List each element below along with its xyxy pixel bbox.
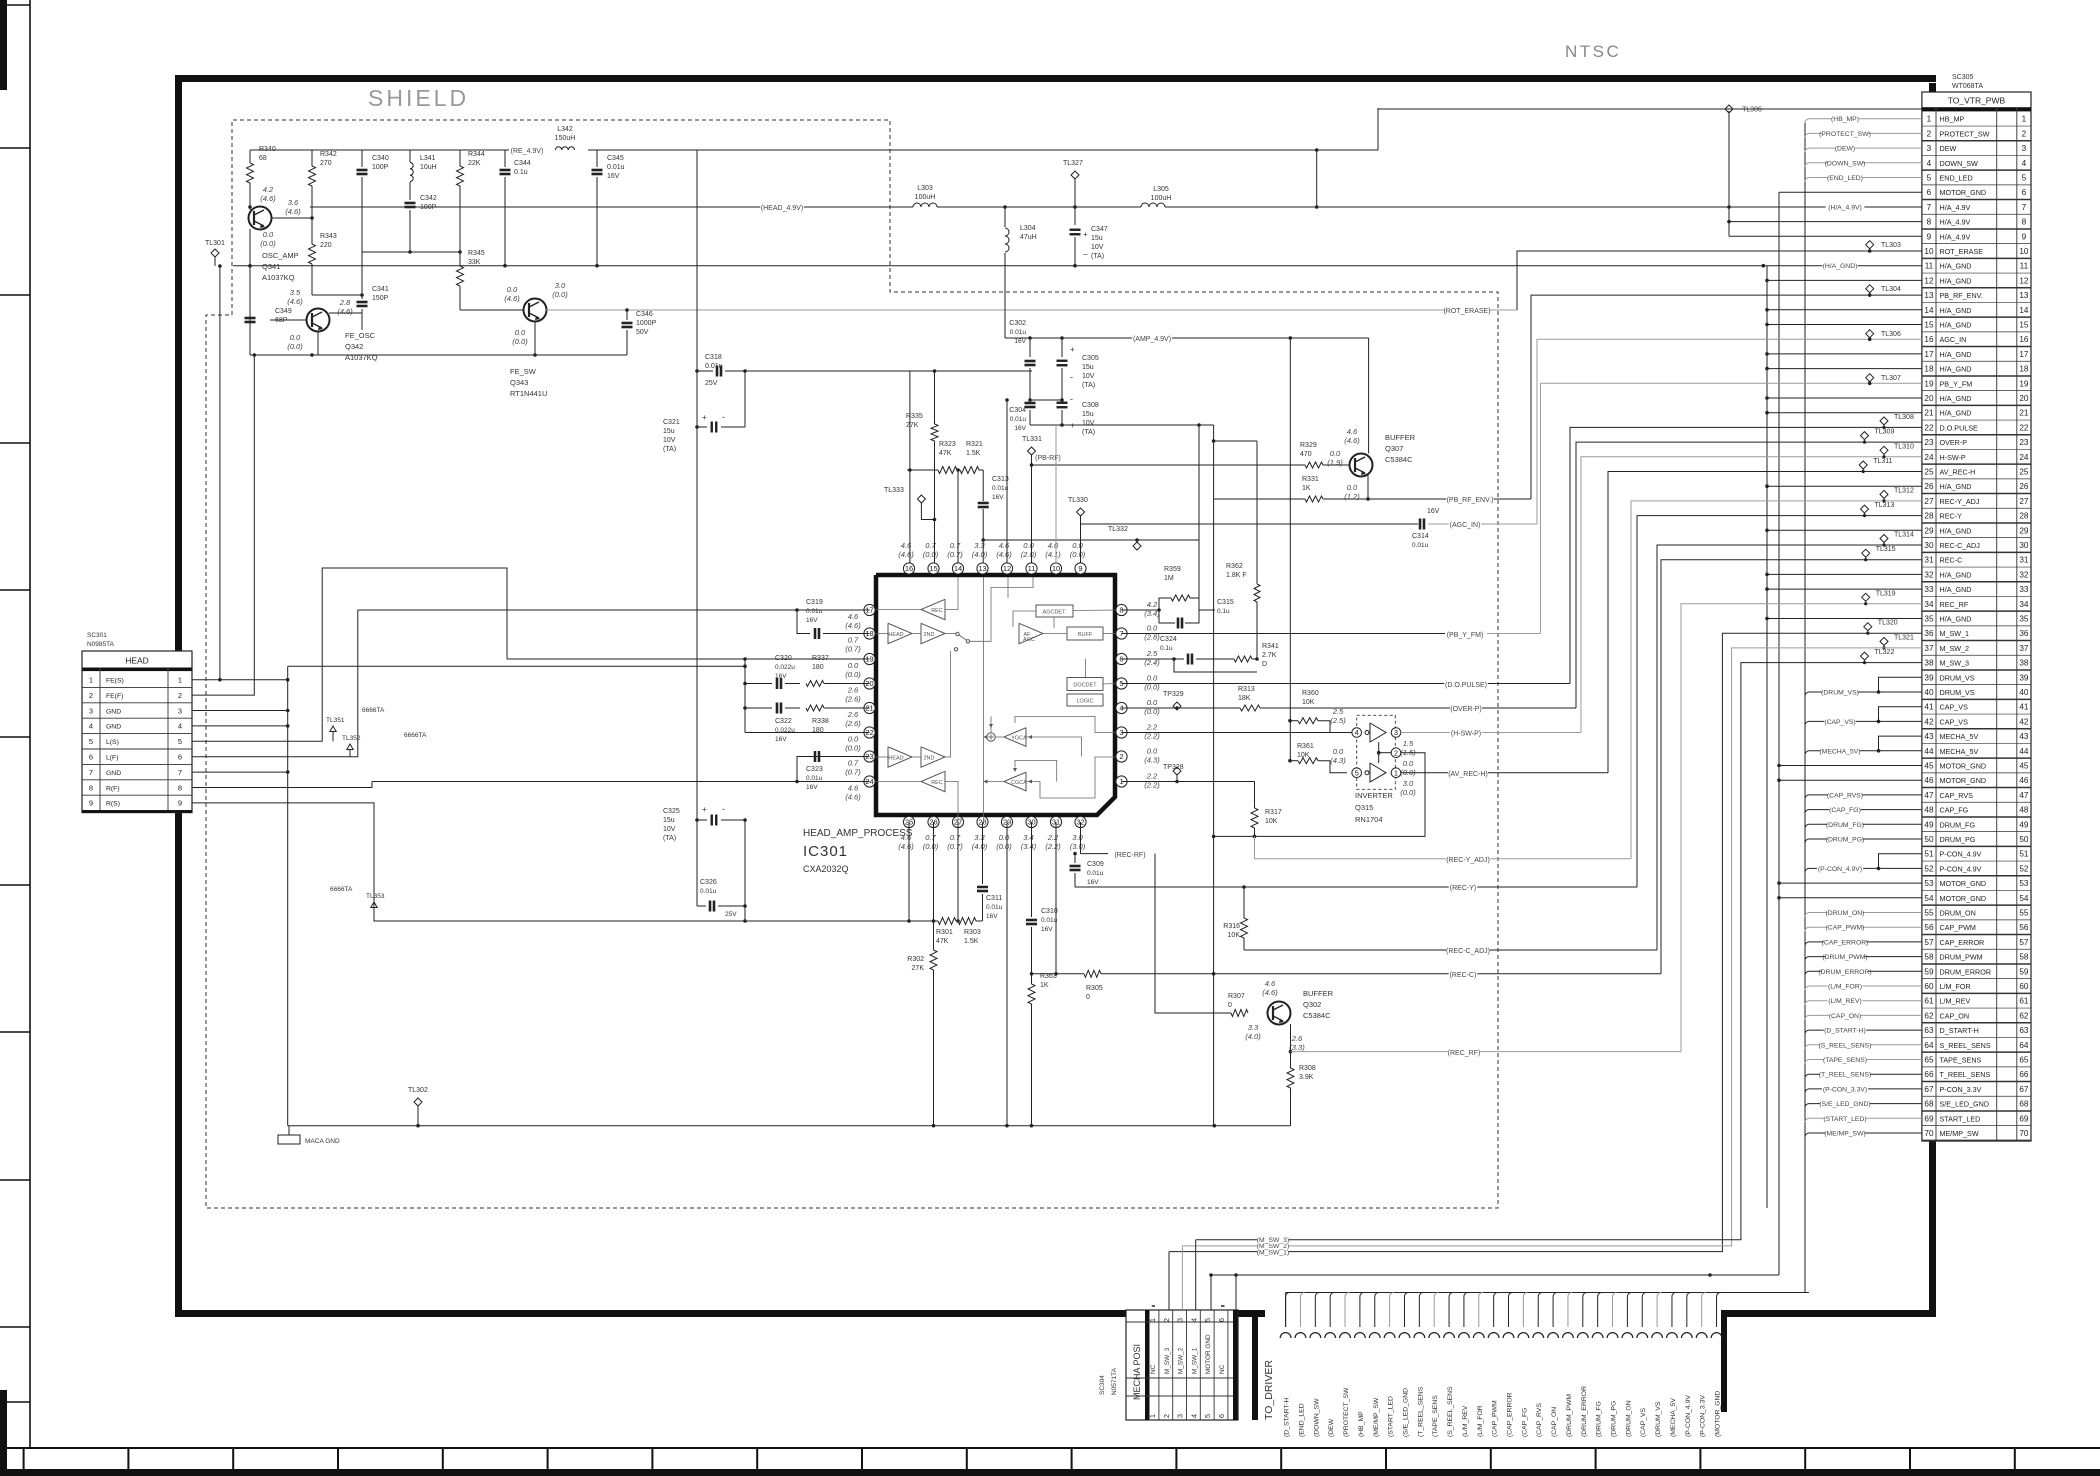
svg-text:M_SW_2: M_SW_2 <box>1940 644 1970 653</box>
svg-text:51: 51 <box>1924 850 1934 859</box>
svg-text:(MECHA_5V: (MECHA_5V <box>1670 1398 1677 1437</box>
svg-text:5: 5 <box>89 737 93 746</box>
svg-text:(REC_RF): (REC_RF) <box>1448 1050 1481 1057</box>
svg-text:10uH: 10uH <box>420 164 437 171</box>
svg-text:Q342: Q342 <box>345 342 363 351</box>
svg-text:(1.2): (1.2) <box>1344 492 1360 501</box>
IC301 pin 3 <box>1116 727 1127 738</box>
wire HEAD row7 GND <box>192 771 288 773</box>
capacitor C341 <box>361 295 363 299</box>
svg-text:0.01u: 0.01u <box>806 775 823 782</box>
wire R343 bottom to C341 <box>312 294 362 296</box>
wire M_SW_2 route <box>1182 648 1922 1246</box>
svg-text:R307: R307 <box>1228 993 1245 1000</box>
IC301 internal vertical pin13-28 <box>982 577 984 822</box>
svg-text:16V: 16V <box>1087 879 1099 886</box>
svg-text:TL309: TL309 <box>1875 429 1895 436</box>
svg-text:10: 10 <box>2019 247 2029 256</box>
wire (S_REEL_SENS) stub row 64 <box>1805 1045 1922 1049</box>
svg-text:TO_VTR_PWB: TO_VTR_PWB <box>1948 96 2006 106</box>
svg-text:4: 4 <box>178 722 182 731</box>
svg-text:(2.5): (2.5) <box>1330 716 1346 725</box>
svg-text:1: 1 <box>1148 1318 1157 1322</box>
svg-text:A1037KQ: A1037KQ <box>262 273 295 282</box>
wire Q302 emitter to REC_RF <box>1290 1024 1292 1052</box>
svg-text:C315: C315 <box>1217 599 1234 606</box>
MECHA POSI NC pin stubs <box>1152 1305 1155 1307</box>
svg-text:26: 26 <box>2019 482 2029 491</box>
wire C304 C308 bottom rail <box>1030 424 1214 426</box>
IC301 internal amp HEAD top <box>888 623 912 643</box>
svg-text:0.01u: 0.01u <box>1010 329 1027 336</box>
op-amp U1 IC301 body <box>876 575 1115 815</box>
wire HEAD row5 L(S) <box>192 568 507 741</box>
svg-text:66: 66 <box>2019 1070 2029 1079</box>
svg-text:67: 67 <box>2019 1085 2029 1094</box>
svg-text:2: 2 <box>1162 1414 1171 1418</box>
wire pin29 down <box>1006 822 1008 1126</box>
IC301 internal wire bottom channel to switch <box>945 651 951 757</box>
resistor R342 <box>311 150 313 166</box>
svg-text:(4.6): (4.6) <box>1262 988 1278 997</box>
svg-text:(AGC_IN): (AGC_IN) <box>1450 522 1481 529</box>
svg-text:-: - <box>1070 372 1073 382</box>
svg-text:1.8K F: 1.8K F <box>1226 572 1247 579</box>
resistor R343 <box>311 218 313 244</box>
svg-text:C308: C308 <box>1082 402 1099 409</box>
svg-text:17: 17 <box>2019 350 2029 359</box>
svg-text:REC-Y_ADJ: REC-Y_ADJ <box>1940 497 1980 506</box>
svg-text:R345: R345 <box>468 250 485 257</box>
svg-text:CXA2032Q: CXA2032Q <box>803 864 849 874</box>
svg-text:1000P: 1000P <box>636 320 657 327</box>
svg-text:68P: 68P <box>275 317 288 324</box>
wire AMP_4.9V rail <box>1005 337 1338 339</box>
svg-text:0.0: 0.0 <box>507 285 518 294</box>
IC301 pin 20 <box>864 678 875 689</box>
svg-text:20: 20 <box>2019 394 2029 403</box>
wire (END_LED) stub row 5 <box>1805 178 1922 182</box>
wire pin17 rail <box>358 609 870 611</box>
svg-text:0.01u: 0.01u <box>1041 917 1058 924</box>
wire HEAD row6 L(F) <box>192 610 358 757</box>
IC301 pin 24 <box>864 776 875 787</box>
svg-text:(0.0): (0.0) <box>1400 788 1416 797</box>
svg-text:28: 28 <box>1924 512 1934 521</box>
svg-text:TAPE_SENS: TAPE_SENS <box>1940 1056 1982 1065</box>
svg-text:RT1N441U: RT1N441U <box>510 389 547 398</box>
svg-text:25: 25 <box>1924 468 1934 477</box>
svg-text:(2.6): (2.6) <box>845 719 861 728</box>
TO_DRIVER pin arc MOTOR_GND <box>1711 1333 1722 1338</box>
svg-text:67: 67 <box>1924 1085 1934 1094</box>
IC301 pin 27 <box>952 816 963 827</box>
TO_DRIVER pin arc START_LED <box>1384 1333 1395 1338</box>
svg-text:32: 32 <box>2019 570 2029 579</box>
TO_DRIVER pin arc END_LED <box>1295 1333 1306 1338</box>
svg-text:HB_MP: HB_MP <box>1940 115 1965 124</box>
svg-text:14: 14 <box>2019 306 2029 315</box>
svg-text:M_SW_1: M_SW_1 <box>1940 629 1970 638</box>
svg-text:REC-C: REC-C <box>1940 556 1963 565</box>
wire GND bus x287.7 <box>287 666 289 1125</box>
svg-text:38: 38 <box>1924 659 1934 668</box>
svg-text:R305: R305 <box>1086 985 1103 992</box>
svg-text:2.2: 2.2 <box>1146 772 1158 781</box>
svg-text:62: 62 <box>2019 1011 2029 1020</box>
wire HEAD row3 GND <box>192 710 288 712</box>
inductor L304 <box>1004 207 1006 227</box>
svg-text:(4.6): (4.6) <box>898 550 914 559</box>
svg-text:TL313: TL313 <box>1875 502 1895 509</box>
svg-text:CAP_PWM: CAP_PWM <box>1940 923 1976 932</box>
svg-text:16V: 16V <box>1014 338 1026 345</box>
TO_DRIVER pin arc DEW <box>1325 1333 1336 1338</box>
svg-text:(DRUM_VS: (DRUM_VS <box>1655 1401 1662 1437</box>
wire riser REC-C <box>1661 560 1922 974</box>
bottom ruler line <box>0 1447 2100 1449</box>
svg-text:100uH: 100uH <box>1151 195 1172 202</box>
IC301 pin 4 <box>1116 702 1127 713</box>
svg-text:41: 41 <box>1924 703 1934 712</box>
svg-text:5: 5 <box>1927 174 1932 183</box>
wire (DRUM_VS) fork rows 39/40 <box>1805 692 1922 696</box>
svg-text:19: 19 <box>2019 379 2029 388</box>
svg-text:CAP_FG: CAP_FG <box>1940 806 1969 815</box>
IC301 pin 32 <box>1075 816 1086 827</box>
inverter Q315 RN1704 <box>1357 715 1396 789</box>
svg-text:(CAP_VS): (CAP_VS) <box>1824 719 1855 726</box>
svg-text:4.2: 4.2 <box>263 185 274 194</box>
IC301 pin 2 <box>1116 751 1127 762</box>
svg-text:HEAD: HEAD <box>888 632 903 638</box>
svg-text:1K: 1K <box>1302 485 1311 492</box>
capacitor C345 <box>596 150 598 167</box>
svg-text:57: 57 <box>2019 938 2029 947</box>
svg-text:49: 49 <box>2019 820 2029 829</box>
wire (CAP_VS) fork rows 41/42 <box>1805 721 1922 725</box>
wire (D_START-H) stub row 63 <box>1805 1030 1922 1034</box>
svg-text:(DRUM_PG): (DRUM_PG) <box>1826 837 1865 844</box>
IC301 internal AF AGC to BUFF <box>1043 633 1067 635</box>
svg-text:(REC-Y): (REC-Y) <box>1450 885 1476 892</box>
svg-text:(4.6): (4.6) <box>996 550 1012 559</box>
svg-text:56: 56 <box>1924 923 1934 932</box>
svg-text:470: 470 <box>1300 451 1312 458</box>
svg-text:44: 44 <box>2019 747 2029 756</box>
wire H/A_GND bus <box>1766 266 1768 1208</box>
svg-text:0.01u: 0.01u <box>1087 870 1104 877</box>
svg-text:(TA): (TA) <box>1091 253 1104 260</box>
resistor R323 <box>938 467 957 474</box>
svg-text:(TA): (TA) <box>1082 382 1095 389</box>
wire pin31 down <box>1055 822 1057 974</box>
svg-text:H/A_GND: H/A_GND <box>1940 585 1972 594</box>
resistor R305 <box>1084 970 1101 977</box>
IC301 pin 29 <box>1001 816 1012 827</box>
wire (P-CON_3.3V) stub row 67 <box>1805 1089 1922 1093</box>
svg-text:FE(S): FE(S) <box>106 678 124 685</box>
wire (DEW) stub row 3 <box>1805 148 1922 152</box>
capacitor C304 <box>1025 402 1036 405</box>
capacitor C322 + resistor R338 to pin21 <box>744 659 746 708</box>
svg-text:D.O.PULSE: D.O.PULSE <box>1940 423 1979 432</box>
svg-text:70: 70 <box>2019 1129 2029 1138</box>
svg-text:40: 40 <box>1924 688 1934 697</box>
svg-text:48: 48 <box>2019 806 2029 815</box>
svg-text:14: 14 <box>954 564 962 573</box>
svg-text:21: 21 <box>1924 409 1934 418</box>
wire (CAP_FG) stub row 48 <box>1805 810 1922 814</box>
TO_DRIVER pin arc CAP_ON <box>1548 1333 1559 1338</box>
IC301 pin 13 <box>977 563 988 574</box>
svg-text:TL303: TL303 <box>1881 242 1901 249</box>
wire riser REC_RF <box>1681 604 1922 1052</box>
svg-text:(HEAD_4.9V): (HEAD_4.9V) <box>761 205 803 212</box>
svg-text:(AMP_4.9V): (AMP_4.9V) <box>1133 336 1171 343</box>
svg-text:(DRUM_VS): (DRUM_VS) <box>1821 690 1859 697</box>
wire HEAD row9 R(S) <box>192 803 745 921</box>
svg-text:DRUM_FG: DRUM_FG <box>1940 820 1976 829</box>
svg-text:(CAP_ERROR: (CAP_ERROR <box>1507 1392 1514 1437</box>
svg-text:2: 2 <box>178 691 182 700</box>
wire riser OVER-P <box>1576 442 1922 708</box>
wire bus x1290 <box>1289 338 1291 761</box>
svg-text:0.0: 0.0 <box>1147 674 1158 683</box>
svg-text:R321: R321 <box>966 441 983 448</box>
svg-text:1.5K: 1.5K <box>966 450 981 457</box>
wire (T_REEL_SENS) stub row 66 <box>1805 1074 1922 1078</box>
svg-text:C309: C309 <box>1087 861 1104 868</box>
svg-text:(DRUM_PG: (DRUM_PG <box>1611 1401 1618 1437</box>
svg-text:8: 8 <box>178 783 182 792</box>
svg-text:9: 9 <box>2022 232 2027 241</box>
wire pin4 OVER-P row <box>1122 707 1241 709</box>
svg-text:R344: R344 <box>468 151 485 158</box>
svg-text:(4.0): (4.0) <box>972 842 988 851</box>
IC301 internal YGCA input <box>1026 737 1082 757</box>
svg-text:REC: REC <box>931 608 943 614</box>
svg-text:(TA): (TA) <box>663 835 676 842</box>
svg-text:DRUM_PWM: DRUM_PWM <box>1940 953 1983 962</box>
transistor Q302 BUFFER <box>1268 1002 1291 1025</box>
svg-text:R362: R362 <box>1226 563 1243 570</box>
svg-text:3.6: 3.6 <box>288 198 299 207</box>
svg-text:27: 27 <box>2019 497 2029 506</box>
capacitor C346 <box>626 310 628 320</box>
svg-text:C313: C313 <box>992 476 1009 483</box>
svg-text:(4.6): (4.6) <box>287 297 303 306</box>
svg-text:58: 58 <box>2019 953 2029 962</box>
wire (START_LED) stub row 69 <box>1805 1118 1922 1122</box>
svg-text:42: 42 <box>1924 717 1934 726</box>
svg-text:8: 8 <box>1927 218 1932 227</box>
svg-text:(0.0): (0.0) <box>552 290 568 299</box>
svg-text:65: 65 <box>2019 1056 2029 1065</box>
svg-text:TL311: TL311 <box>1873 458 1892 465</box>
IC301 pin 14 <box>952 563 963 574</box>
wire (H/A_GND) row 11 rail <box>233 265 1922 267</box>
svg-text:42: 42 <box>2019 717 2029 726</box>
svg-text:DOCDET: DOCDET <box>1073 683 1097 689</box>
svg-text:MOTOR_GND: MOTOR_GND <box>1940 879 1987 888</box>
wire (DRUM_PG) stub row 50 <box>1805 839 1922 843</box>
svg-text:54: 54 <box>1924 894 1934 903</box>
svg-text:3: 3 <box>1927 144 1932 153</box>
wire vertical x1213.6 <box>1213 425 1215 1126</box>
svg-text:10K: 10K <box>1228 932 1241 939</box>
svg-text:(DRUM_ON: (DRUM_ON <box>1625 1400 1632 1437</box>
svg-text:31: 31 <box>1924 556 1934 565</box>
TO_DRIVER pin arc CAP_FG <box>1518 1333 1529 1338</box>
svg-text:R313: R313 <box>1238 686 1255 693</box>
wire riser AV_REC-H <box>1608 472 1922 773</box>
svg-text:FE(F): FE(F) <box>106 693 123 700</box>
svg-text:4: 4 <box>1355 728 1359 737</box>
wire riser AGC_IN <box>1537 339 1922 524</box>
svg-text:69: 69 <box>1924 1114 1934 1123</box>
svg-text:(2.2): (2.2) <box>1045 842 1061 851</box>
IC301 internal YGCA feedback to pin3 <box>990 716 992 732</box>
svg-text:37: 37 <box>2019 644 2029 653</box>
svg-text:4: 4 <box>1189 1318 1198 1322</box>
svg-text:54: 54 <box>2019 894 2029 903</box>
svg-text:36: 36 <box>2019 629 2029 638</box>
svg-text:HEAD_AMP_PROCESS: HEAD_AMP_PROCESS <box>803 828 913 839</box>
svg-text:TL306: TL306 <box>1881 331 1901 338</box>
svg-text:2.7K: 2.7K <box>1262 652 1277 659</box>
svg-text:16V: 16V <box>1427 508 1440 515</box>
IC301 internal box AGCDET <box>1036 605 1073 617</box>
svg-text:(H-SW-P): (H-SW-P) <box>1451 731 1481 738</box>
svg-text:ROT_ERASE: ROT_ERASE <box>1940 247 1984 256</box>
svg-text:(END_LED: (END_LED <box>1298 1403 1305 1437</box>
TO_DRIVER pin arc DRUM_FG <box>1592 1333 1603 1338</box>
svg-text:WT068TA: WT068TA <box>1952 83 1983 90</box>
TO_DRIVER pin arc TAPE_SENS <box>1429 1333 1440 1338</box>
svg-text:−: − <box>1083 250 1088 259</box>
svg-text:H/A_GND: H/A_GND <box>1940 482 1972 491</box>
IC301 pin 28 <box>977 816 988 827</box>
wire vertical x1199 <box>1198 425 1200 598</box>
wire C324 bypass <box>1174 659 1257 672</box>
svg-text:24: 24 <box>2019 453 2029 462</box>
svg-text:0.0: 0.0 <box>1147 624 1158 633</box>
wire riser H-SW-P <box>1581 457 1922 733</box>
svg-text:53: 53 <box>1924 879 1934 888</box>
svg-text:6: 6 <box>178 753 182 762</box>
resistor R363 <box>1031 974 1033 984</box>
svg-text:L305: L305 <box>1153 186 1169 193</box>
svg-text:S/E_LED_GND: S/E_LED_GND <box>1940 1100 1990 1109</box>
svg-text:37: 37 <box>1924 644 1934 653</box>
TO_DRIVER pin arc CAP_PWM <box>1488 1333 1499 1338</box>
svg-text:44: 44 <box>1924 747 1934 756</box>
svg-text:C345: C345 <box>607 155 624 162</box>
svg-text:(T_REEL_SENS: (T_REEL_SENS <box>1417 1386 1424 1437</box>
svg-text:MOTOR_GND: MOTOR_GND <box>1940 188 1987 197</box>
svg-text:0.0: 0.0 <box>1023 541 1034 550</box>
svg-text:H/A_4.9V: H/A_4.9V <box>1940 203 1971 212</box>
svg-text:16: 16 <box>905 564 913 573</box>
svg-text:10V: 10V <box>1091 244 1104 251</box>
svg-text:C311: C311 <box>986 895 1002 902</box>
svg-text:R341: R341 <box>1262 643 1279 650</box>
svg-text:4.6: 4.6 <box>901 833 912 842</box>
wire Q343 emitter down <box>534 321 536 355</box>
resistor R321 <box>957 469 960 471</box>
svg-text:C5384C: C5384C <box>1303 1011 1331 1020</box>
svg-text:(REC-RF): (REC-RF) <box>1114 852 1145 859</box>
svg-text:16V: 16V <box>806 617 818 624</box>
svg-text:4.6: 4.6 <box>999 541 1010 550</box>
svg-text:MOTOR_GND: MOTOR_GND <box>1940 894 1987 903</box>
svg-text:Q302: Q302 <box>1303 1000 1321 1009</box>
svg-text:AGC_IN: AGC_IN <box>1940 335 1967 344</box>
svg-text:4.6: 4.6 <box>1265 979 1276 988</box>
svg-text:C318: C318 <box>705 354 722 361</box>
resistor R340 <box>249 150 251 163</box>
svg-text:36: 36 <box>1924 629 1934 638</box>
svg-text:62: 62 <box>1924 1011 1934 1020</box>
wire inverter output loop <box>1214 753 1425 837</box>
svg-text:0.1u: 0.1u <box>1217 608 1230 615</box>
svg-text:64: 64 <box>1924 1041 1934 1050</box>
svg-text:47K: 47K <box>936 938 949 945</box>
svg-text:70: 70 <box>1924 1129 1934 1138</box>
wire (ME/MP_SW) stub row 70 <box>1805 1133 1922 1137</box>
capacitor C349 <box>249 307 251 315</box>
svg-text:33: 33 <box>1924 585 1934 594</box>
svg-text:NC: NC <box>1219 1364 1226 1374</box>
svg-text:1K: 1K <box>1040 982 1049 989</box>
svg-text:C305: C305 <box>1082 355 1099 362</box>
svg-text:(0.0): (0.0) <box>996 842 1012 851</box>
inductor L305 <box>1141 206 1165 209</box>
wire TO_DRIVER bus <box>1285 1293 1287 1328</box>
svg-text:TL310: TL310 <box>1894 443 1914 450</box>
svg-text:A1037KQ: A1037KQ <box>345 353 378 362</box>
svg-text:(ME/MP_SW): (ME/MP_SW) <box>1824 1131 1866 1138</box>
wire (CAP_ERROR) stub row 57 <box>1805 942 1922 946</box>
svg-text:GND: GND <box>106 770 121 777</box>
svg-text:3: 3 <box>1394 728 1398 737</box>
svg-text:C323: C323 <box>806 766 823 773</box>
svg-text:R343: R343 <box>320 233 337 240</box>
svg-text:(RE_4.9V): (RE_4.9V) <box>511 148 544 155</box>
wire (PROTECT_SW) stub row 2 <box>1805 133 1922 137</box>
svg-text:END_LED: END_LED <box>1940 174 1973 183</box>
TO_DRIVER pin arc DRUM_ON <box>1622 1333 1633 1338</box>
svg-text:FE_SW: FE_SW <box>510 367 537 376</box>
resistor R341 <box>1234 656 1252 662</box>
svg-text:(END_LED): (END_LED) <box>1827 175 1863 182</box>
wire Q341 base <box>271 217 312 219</box>
transistor Q343 FE_SW <box>524 299 547 322</box>
svg-text:FE_OSC: FE_OSC <box>345 331 376 340</box>
left ruler line <box>29 0 31 1448</box>
wire R301 row <box>745 920 938 922</box>
svg-text:(4.6): (4.6) <box>504 294 520 303</box>
wire HEAD row2 FE(F) <box>192 355 254 695</box>
IC301 internal CGCA input <box>1026 757 1115 798</box>
wire head_4.9v rail <box>310 206 1922 208</box>
svg-text:R(F): R(F) <box>106 785 120 792</box>
IC301 pin 15 <box>928 563 939 574</box>
svg-text:(4.6): (4.6) <box>260 194 276 203</box>
svg-text:TL351: TL351 <box>326 717 345 724</box>
svg-text:(3.0): (3.0) <box>1070 842 1086 851</box>
